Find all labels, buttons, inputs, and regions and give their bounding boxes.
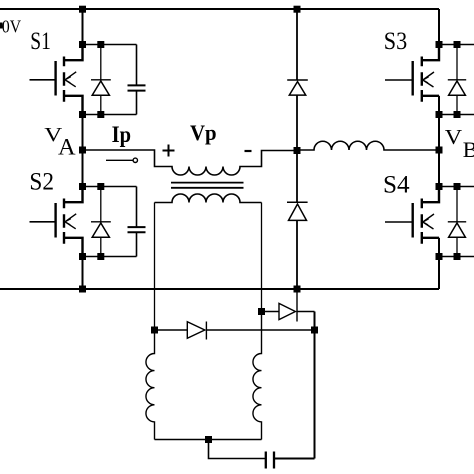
wire: bottom wire between L1 and L2 [155,439,262,441]
svg-text:V: V [445,125,462,149]
junction dot top bus / S1 [79,6,86,13]
node dot secondary right / D6 / L2 [258,308,265,315]
junction dot mid bus / clamp rail [294,6,301,13]
label VB [445,125,474,162]
diode D-S4 (antiparallel of S4) [448,187,466,257]
wire: S4 top junction row (cap off-canvas) [439,186,474,188]
wire: S3 top junction row (cap off-canvas) [439,44,474,46]
transformer T1 secondary winding [155,194,262,203]
label 400V supply (cut off at edge) [0,17,21,37]
diode D1 (antiparallel of S1) [91,45,111,115]
svg-text:0V: 0V [2,17,21,37]
wire: S1 bottom junction row [83,114,137,116]
wire: right rail middle segment (S3 source to S4 drain) [438,96,440,202]
junction dot S1 source row right [97,111,104,118]
junction dot S2 source row left [79,253,86,260]
diode D-S3 (antiparallel of S3) [448,45,466,115]
junction dot bottom bus / clamp rail [294,286,301,293]
junction dot S4 source row right [454,253,461,260]
wire: right rail lower segment (S4 source to bottom bus) [438,238,440,289]
wire: S2 bottom junction row [83,256,137,258]
wire: bottom bus to D6 cathode [296,289,298,303]
svg-text:S4: S4 [383,172,410,199]
transistor S1 (MOSFET) [30,45,83,115]
diode D4 (lower clamp) [287,202,308,220]
current arrow Ip [106,158,138,162]
wire: S2 top junction row [83,186,137,188]
svg-text:S3: S3 [384,28,407,55]
capacitor C3 plates [266,452,274,469]
junction dot S3 source row right [454,111,461,118]
junction dot S4 drain row left [436,183,443,190]
capacitor C3 branch left wire [209,440,266,459]
junction dot S1 drain row left [79,41,86,48]
node Vp dot [294,147,301,154]
wire: node A to transformer with primary winding of T1 [83,150,298,175]
node dot secondary left / D5 / L1 [151,327,158,334]
svg-text:Vp: Vp [190,120,217,145]
wire: bottom DC bus [0,288,439,290]
wire: secondary right lead down across bus [261,203,263,312]
transistor S2 (MOSFET) [30,187,83,257]
wire: node Vp to diode D4 [296,151,298,203]
diode D2 (antiparallel of S2) [91,187,111,257]
minus sign (primary polarity) [245,150,252,152]
node A dot [79,147,86,154]
junction dot bottom wire / C3 branch [205,436,212,443]
wire: S1 top junction row [83,44,137,46]
capacitor C1 (snubber of S1) [128,45,146,115]
junction dot bottom bus / S2 [79,286,86,293]
junction dot S2 drain row left [79,183,86,190]
junction dot S3 source row left [436,111,443,118]
wire: left rail middle segment (S1 source to S2 drain through node A) [82,96,84,202]
junction dot S2 source row right [97,253,104,260]
svg-text:S1: S1 [30,28,51,55]
svg-text:A: A [58,135,76,160]
inductor L1 [146,330,155,440]
wire: left rail lower segment (S2 source to bottom bus) [82,238,84,289]
node B dot [436,147,443,154]
svg-text:S2: S2 [29,169,54,196]
svg-text:Ip: Ip [112,122,131,148]
junction dot S2 drain row right [97,183,104,190]
junction dot S1 source row left [79,111,86,118]
inductor L2 [253,312,262,440]
transformer T1 core [171,183,244,188]
diode D3 (upper clamp) [287,80,308,95]
junction dot S3 drain row left [436,41,443,48]
junction dot S3 drain row right [454,41,461,48]
wire: S4 bottom junction row (cap off-canvas) [439,256,474,258]
plus sign (primary polarity) [163,145,175,157]
wire: D3 anode to node Vp [296,95,298,150]
diode D5 [155,322,315,340]
junction dot S4 source row left [436,253,443,260]
wire: D4 anode to bottom bus [296,220,298,289]
diode D6 [262,303,315,322]
capacitor C3 branch right wire [274,458,315,460]
inductor Lo (output filter) [297,141,439,150]
junction dot S4 drain row right [454,183,461,190]
junction dot D5/D6 output [311,327,318,334]
wire: left rail upper segment (top bus to S1 drain) [82,9,84,60]
wire: S3 bottom junction row (cap off-canvas) [439,114,474,116]
transistor S4 (MOSFET) [385,187,439,244]
wire: top DC bus [0,8,439,10]
svg-text:B: B [463,137,474,162]
wire: right rail upper segment (top bus to S3 drain) [438,9,440,60]
wire: right vertical of clamp network [314,312,316,459]
junction dot S1 drain row right [97,41,104,48]
label VA [44,124,76,160]
wire: secondary left lead down across bus [154,203,156,331]
clamp rail: top bus to diode D3 [296,9,298,80]
capacitor C2 (snubber of S2) [128,187,146,257]
transistor S3 (MOSFET) [385,45,439,102]
